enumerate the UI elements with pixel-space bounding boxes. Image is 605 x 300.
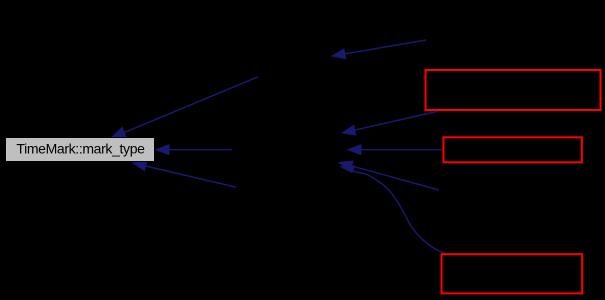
node: truncated red box bottom-right — [442, 254, 583, 293]
arrowhead — [133, 161, 147, 171]
edge: lower middle node -> TimeMark::mark_type (diagonal) — [133, 161, 237, 187]
edge: lower-right node -> middle node (diagonal) — [339, 161, 439, 190]
edge: middle-right red node -> middle node (horizontal) — [348, 145, 443, 155]
edge: upper middle node -> TimeMark::mark_type — [112, 77, 258, 137]
arrowhead of curved edge — [341, 166, 355, 172]
edge: top-right red node -> middle node — [342, 112, 437, 136]
edge: bottom-right red node -> middle node (curved) — [354, 171, 446, 254]
arrowhead — [156, 145, 169, 155]
arrowhead — [112, 127, 126, 137]
arrowhead — [342, 125, 356, 135]
node: TimeMark::mark_type (grey) — [6, 138, 155, 162]
node: truncated red box middle-right — [444, 137, 582, 162]
edge: top-right node -> upper middle node — [332, 40, 426, 59]
node: truncated red box top-right — [426, 70, 601, 110]
arrowhead — [339, 161, 353, 171]
edge: middle node -> TimeMark::mark_type (horizontal) — [156, 145, 232, 155]
arrowhead — [332, 49, 346, 59]
arrowhead — [348, 145, 361, 155]
svg-text:TimeMark::mark_type: TimeMark::mark_type — [16, 141, 145, 157]
